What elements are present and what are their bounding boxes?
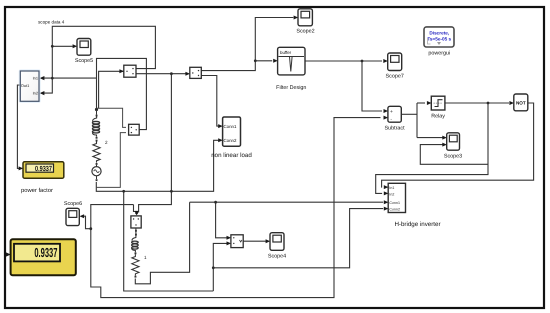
svg-text:Out1: Out1 [21, 83, 29, 88]
wire subtract in1 branch [362, 61, 382, 111]
wire net A: CM1 i-output to Scope5 / In1 / In2 [44, 26, 155, 93]
svg-text:+: + [390, 109, 393, 115]
arrow into VM3 v- [227, 241, 232, 245]
branch2 top stub + port dot [96, 110, 98, 115]
svg-text:powergui: powergui [428, 51, 450, 57]
arrow into nll Conn1 [218, 124, 223, 128]
wire NOT out loop to In1 [382, 103, 534, 187]
wire Conn1 net [190, 201, 384, 203]
junction neutral line x123 [122, 190, 125, 193]
arrow into Scope5 [73, 44, 78, 48]
arrow into Subtract in2 [384, 116, 389, 120]
display power factor (small) [21, 162, 64, 194]
wire VM3 output to Scope4 [243, 240, 266, 242]
resistor R1 zigzag [132, 254, 139, 275]
resistor R2 zigzag [93, 142, 100, 163]
arrow into Relay [427, 101, 432, 105]
H-bridge inverter subsystem [388, 183, 440, 228]
wire In1 branch [44, 77, 97, 79]
svg-text:1: 1 [144, 255, 147, 260]
Filter Design block [276, 47, 306, 91]
arrow into display1 [19, 166, 24, 170]
junction Subtract in1 tap [361, 60, 364, 63]
wire scope3 in1 feed [417, 137, 443, 139]
svg-text:Ts=5e-05 s: Ts=5e-05 s [427, 37, 451, 42]
svg-text:Filter Design: Filter Design [276, 85, 306, 91]
arrow down into branch1 CM top [135, 211, 139, 216]
svg-text:NOT: NOT [516, 101, 526, 106]
svg-text:buffer: buffer [280, 50, 292, 55]
svg-text:0.9337: 0.9337 [34, 245, 57, 260]
wire CM2 lower port to non-linear-load Conn1 [201, 76, 218, 127]
svg-text:0.9337: 0.9337 [35, 164, 52, 173]
svg-text:Conn1: Conn1 [389, 201, 400, 205]
arrow into In1 (left-pointing) [40, 76, 45, 80]
current measurement CM1 [124, 65, 136, 77]
arrow into Hbridge In1 [384, 185, 389, 189]
wire VM2 in2 from source bottom level [96, 133, 126, 188]
wire scope6 tap [84, 216, 91, 229]
svg-text:Relay: Relay [431, 114, 445, 120]
svg-text:power factor: power factor [21, 187, 53, 194]
svg-text:In1: In1 [33, 76, 38, 81]
arrow into Scope3 in2 [442, 143, 447, 147]
inductor L2 (flat loops) [93, 117, 97, 122]
branch 2 components [92, 108, 126, 187]
wire relay junction down [376, 103, 488, 193]
arrow into Hbridge Conn1 [384, 200, 389, 204]
wire net C: CM1 input from branch2 top [99, 71, 125, 108]
scope Scope4 [268, 233, 286, 260]
wire branch1 bottom up to Conn1 net [135, 202, 189, 284]
wire neutral drop x171 [139, 74, 172, 213]
junction CM1 lower / neutral drop [170, 72, 173, 75]
subsystem (power factor measurement) with In1/Out1/In2 [19, 69, 41, 103]
wire Filter Design input branch [255, 60, 272, 62]
arrow into In2 (left-pointing) [40, 91, 45, 95]
svg-text:Scope4: Scope4 [268, 254, 286, 260]
svg-text:In2: In2 [33, 91, 38, 96]
wire relay feed [417, 102, 425, 104]
scope Scope6 [64, 201, 82, 226]
wire VM2 in1 from branch2 top [97, 108, 127, 127]
junction node branch2 top [95, 108, 98, 111]
arrow into Hbridge Conn2 [384, 207, 389, 211]
svg-text:H-bridge inverter: H-bridge inverter [394, 221, 440, 228]
wire subtract out [401, 113, 417, 115]
arrow into VM3 v+ [227, 236, 232, 240]
wire FD out to Scope7 [305, 60, 382, 62]
arrow into Scope7 [383, 59, 388, 63]
arrow into Filter Design [273, 59, 278, 63]
arrow into CM2 [185, 72, 190, 76]
arrow into Scope3 in1 [442, 136, 447, 140]
branch 1 components [132, 228, 139, 278]
wire neutral y191 source to nll Conn2 [96, 140, 218, 191]
junction Scope6 tap [89, 227, 92, 230]
voltage measurement VM3 [231, 235, 243, 248]
svg-text:Discrete,: Discrete, [429, 31, 449, 36]
wire CM1 lower port to CM2 [136, 73, 188, 75]
svg-text:2: 2 [105, 140, 108, 145]
display2 (big 0.9337) [11, 239, 76, 275]
Subtract block [385, 106, 406, 131]
wire Scope5 branch [52, 45, 73, 47]
wire neutral y204 left segment [91, 118, 381, 298]
junction Filter Design input tap [254, 59, 257, 62]
wire Conn2 net [213, 209, 383, 268]
svg-text:In1: In1 [389, 186, 394, 190]
scope Scope7 [386, 53, 404, 80]
svg-text:Conn1: Conn1 [224, 124, 237, 129]
current measurement CM2 [190, 67, 202, 78]
wire Out1 to display1 [17, 85, 20, 168]
arrow into display2 [6, 252, 11, 256]
current measurement CM3 (branch 1) [131, 216, 141, 228]
AC source V2 [92, 167, 101, 176]
powergui block [424, 27, 454, 57]
inductor L1 (flat loops) [132, 236, 136, 241]
scope Scope3 [444, 133, 462, 160]
svg-text:Subtract: Subtract [385, 126, 406, 132]
junction neutral line x171 [170, 190, 173, 193]
Relay block [431, 96, 445, 119]
wire scope3 in2 loop [420, 145, 488, 165]
svg-text:Scope5: Scope5 [75, 58, 93, 64]
arrow into NOT [509, 101, 514, 105]
svg-text:Scope7: Scope7 [386, 74, 404, 80]
svg-text:scope data 4: scope data 4 [38, 20, 65, 25]
arrowheads (right-pointing: tip at x,y) [6, 16, 514, 257]
svg-text:non linear load: non linear load [211, 152, 252, 159]
junction branch1 CM input [135, 212, 138, 215]
port dots between L and R [96, 137, 98, 139]
svg-text:In2: In2 [389, 192, 394, 196]
scope Scope2 [296, 9, 314, 35]
svg-text:Scope6: Scope6 [64, 201, 82, 207]
arrow into CM1 [119, 69, 124, 73]
wire CM2 upper port to Scope2 [201, 18, 293, 71]
arrow into Scope6 (left-pointing) [80, 214, 85, 218]
scope Scope5 [75, 39, 93, 65]
wire big loop left [124, 191, 214, 291]
arrow into nll Conn2 [218, 138, 223, 142]
arrow into Hbridge In2 [384, 191, 389, 195]
non linear load subsystem [211, 117, 252, 159]
junction at In1/In2 tap [51, 77, 54, 80]
arrow into Scope4 [266, 239, 271, 243]
wire relay out to NOT [445, 102, 509, 104]
wire drop to branch1 CM top [134, 205, 137, 212]
wire VM3 v- input vertical [213, 243, 227, 291]
junction Relay output tap [487, 102, 490, 105]
svg-text:Scope3: Scope3 [444, 154, 462, 160]
svg-text:Conn2: Conn2 [389, 207, 400, 211]
junction Conn1 net tap to VM3 [214, 201, 217, 204]
wire VM3 v+ input drop [216, 202, 227, 238]
svg-text:Conn2: Conn2 [224, 138, 237, 143]
voltage measurement VM2 [129, 124, 140, 135]
arrow into Subtract in1 [384, 109, 389, 113]
NOT block [514, 94, 528, 111]
junction Conn2 net tap to VM3 [212, 266, 215, 269]
wire vertical x417 [416, 103, 418, 138]
arrow into Scope2 [294, 16, 299, 20]
svg-text:Scope2: Scope2 [296, 29, 314, 35]
junction at Scope5 tap [51, 45, 54, 48]
wire net B: VM2 output up-and-over to branch2 top [97, 58, 147, 129]
